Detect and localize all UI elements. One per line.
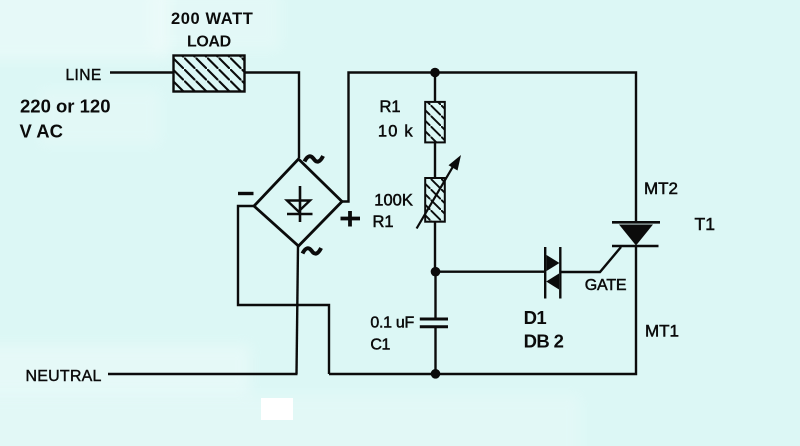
svg-text:C1: C1 [370, 336, 390, 353]
svg-text:LINE: LINE [66, 67, 102, 84]
svg-text:D1: D1 [524, 307, 547, 328]
svg-text:0.1 uF: 0.1 uF [370, 314, 414, 331]
svg-text:100K: 100K [374, 191, 413, 209]
svg-text:MT2: MT2 [644, 179, 678, 198]
svg-text:V AC: V AC [20, 120, 64, 141]
svg-text:LOAD: LOAD [187, 33, 231, 50]
svg-text:R1: R1 [380, 98, 401, 116]
svg-text:220 or 120: 220 or 120 [20, 96, 111, 117]
svg-text:10 k: 10 k [378, 123, 414, 141]
svg-text:T1: T1 [695, 214, 715, 234]
svg-text:200 WATT: 200 WATT [171, 10, 253, 28]
svg-text:DB 2: DB 2 [524, 331, 564, 352]
svg-text:GATE: GATE [585, 277, 627, 294]
svg-text:NEUTRAL: NEUTRAL [26, 368, 102, 385]
svg-text:MT1: MT1 [645, 322, 679, 341]
svg-text:R1: R1 [373, 213, 394, 231]
